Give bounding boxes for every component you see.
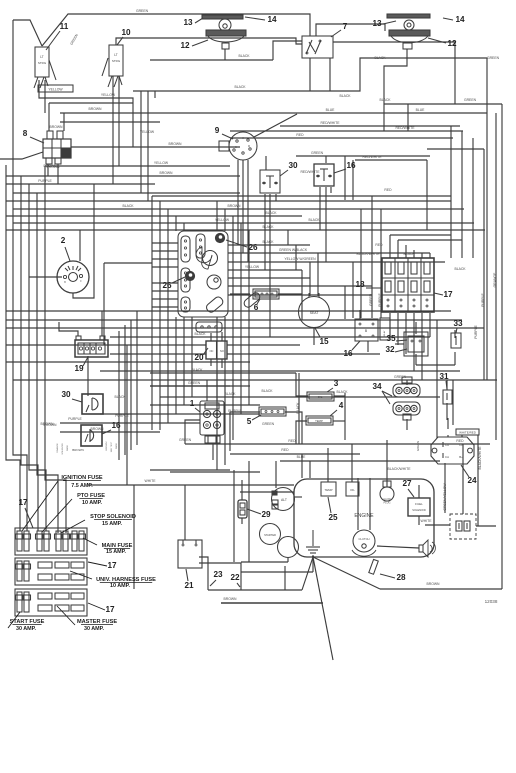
relay RL16b — [355, 319, 378, 341]
svg-text:M: M — [248, 144, 250, 148]
wire — [104, 262, 152, 264]
svg-text:BLACK: BLACK — [454, 267, 466, 271]
wire — [429, 253, 431, 258]
svg-text:STARTER: STARTER — [264, 533, 276, 537]
engine outline — [294, 479, 434, 557]
svg-text:PAGE: PAGE — [115, 443, 118, 449]
svg-text:RED/WHITE: RED/WHITE — [395, 126, 415, 130]
svg-text:LT: LT — [40, 55, 44, 59]
svg-text:SOLENOID: SOLENOID — [412, 508, 426, 512]
wire — [150, 385, 250, 387]
wire — [278, 294, 302, 320]
svg-text:18: 18 — [355, 280, 365, 289]
wire — [294, 496, 302, 498]
wire — [191, 230, 193, 231]
wire — [461, 435, 463, 437]
wire — [406, 419, 408, 430]
svg-text:3: 3 — [334, 379, 339, 388]
wire — [287, 230, 289, 245]
svg-text:CA: CA — [445, 443, 449, 447]
wire — [407, 58, 487, 380]
wire — [447, 418, 449, 429]
wire — [42, 14, 310, 46]
wire — [357, 478, 359, 530]
seat switch 15 — [299, 297, 330, 328]
wire — [101, 311, 103, 336]
wire — [227, 353, 380, 355]
label WHITE/RED (boxed) — [456, 429, 479, 435]
svg-text:GREEN W/BLACK: GREEN W/BLACK — [279, 248, 308, 252]
wire — [446, 380, 448, 390]
wire — [232, 216, 234, 440]
wire — [6, 215, 302, 217]
svg-text:GREEN: GREEN — [311, 151, 324, 155]
svg-text:BLACK: BLACK — [374, 56, 386, 60]
spark plug — [380, 487, 394, 501]
wire — [296, 421, 307, 444]
wire — [151, 196, 153, 430]
svg-text:4: 4 — [339, 401, 344, 410]
wire — [384, 103, 502, 105]
wire — [418, 485, 420, 498]
connector 34 pin — [402, 377, 412, 383]
svg-text:16: 16 — [343, 349, 353, 358]
connector 34 row2 — [393, 402, 420, 415]
module 19 — [75, 340, 108, 357]
wire — [302, 557, 313, 590]
wire — [389, 235, 391, 258]
wire — [248, 461, 250, 562]
wire — [140, 91, 142, 193]
wire — [6, 310, 451, 312]
wire — [13, 222, 474, 224]
wire — [501, 104, 503, 589]
svg-text:19: 19 — [74, 364, 84, 373]
relay RL16a — [314, 164, 334, 186]
wire — [13, 208, 464, 210]
svg-text:PURPLE: PURPLE — [378, 292, 382, 306]
wire — [327, 448, 329, 482]
starter — [260, 524, 281, 545]
svg-text:STRG: STRG — [112, 59, 121, 63]
svg-text:WHITE: WHITE — [421, 519, 433, 523]
svg-text:LT: LT — [114, 53, 118, 57]
svg-text:23: 23 — [213, 570, 223, 579]
svg-text:RED: RED — [296, 133, 304, 137]
svg-text:30 AMP.: 30 AMP. — [84, 626, 105, 632]
svg-text:BROWN/: BROWN/ — [106, 441, 108, 450]
lamp 3 — [307, 392, 334, 401]
wire — [6, 327, 484, 329]
fuse slot S3a — [38, 593, 52, 599]
svg-text:PURPLE: PURPLE — [68, 417, 82, 421]
wire — [237, 160, 239, 245]
connector C8 — [43, 139, 71, 158]
wire — [450, 126, 452, 258]
fuel solenoid — [408, 498, 430, 516]
wire — [309, 262, 311, 296]
svg-text:13: 13 — [183, 18, 193, 27]
wire — [60, 121, 160, 123]
svg-text:GREEN: GREEN — [136, 9, 149, 13]
wire — [247, 160, 249, 262]
wire — [248, 230, 250, 405]
svg-text:PLUG: PLUG — [383, 501, 390, 505]
svg-text:BLACK: BLACK — [238, 54, 250, 58]
switch module 21 — [178, 540, 202, 568]
wire — [390, 234, 451, 236]
wire — [477, 435, 479, 526]
svg-text:BROWN: BROWN — [72, 448, 84, 452]
wire — [483, 149, 485, 380]
svg-text:YELLOW W/GREEN: YELLOW W/GREEN — [284, 257, 316, 261]
svg-text:YELLOW: YELLOW — [215, 218, 230, 222]
svg-text:ENGINE: ENGINE — [354, 513, 374, 519]
svg-text:CA: CA — [459, 443, 463, 447]
svg-text:17: 17 — [105, 605, 115, 614]
wire — [421, 253, 423, 258]
ground symbol — [312, 530, 314, 546]
wire — [6, 165, 20, 531]
fuse slot S2e — [55, 574, 69, 580]
svg-text:BROWN: BROWN — [50, 125, 64, 129]
wire — [377, 546, 419, 548]
wire 20 pin c — [210, 359, 212, 366]
svg-text:RED: RED — [384, 188, 392, 192]
wire — [152, 306, 178, 308]
wire — [224, 209, 226, 231]
svg-text:SEE TEXT: SEE TEXT — [111, 441, 113, 452]
wire — [133, 485, 135, 589]
wire — [415, 354, 417, 365]
wire — [13, 20, 42, 46]
wire — [241, 571, 313, 573]
svg-text:IGNITION FUSE: IGNITION FUSE — [61, 475, 103, 481]
wire — [150, 469, 230, 471]
svg-text:RED/WHITE: RED/WHITE — [362, 155, 382, 159]
wire — [230, 130, 463, 132]
wire — [436, 320, 438, 438]
svg-text:8: 8 — [23, 129, 28, 138]
svg-text:RED: RED — [456, 439, 464, 443]
wire — [333, 420, 345, 422]
wire — [159, 201, 161, 430]
start/master fuse F6 — [17, 592, 22, 612]
wire — [6, 319, 462, 321]
wire — [386, 440, 388, 487]
wire — [301, 454, 303, 478]
wire — [295, 245, 297, 270]
wire — [6, 200, 451, 202]
pto fuse F2 — [37, 531, 42, 551]
svg-text:GREEN: GREEN — [262, 422, 275, 426]
fuse slot S2b — [55, 562, 69, 568]
relay RL30b — [82, 394, 103, 414]
wire — [183, 223, 185, 231]
wire — [406, 49, 408, 58]
svg-text:14: 14 — [455, 15, 465, 24]
svg-text:BLUE: BLUE — [416, 108, 426, 112]
wire — [242, 160, 244, 253]
wire — [152, 266, 178, 268]
svg-text:GREEN: GREEN — [464, 98, 477, 102]
wire — [110, 353, 206, 355]
wire — [269, 194, 271, 337]
wire — [152, 195, 451, 197]
wire — [355, 159, 427, 161]
wire — [406, 380, 408, 385]
wire — [88, 484, 294, 486]
svg-text:BLACK: BLACK — [224, 392, 236, 396]
wire — [301, 270, 303, 294]
oil sender — [346, 482, 359, 496]
svg-text:YELLOW: YELLOW — [245, 265, 260, 269]
wire — [462, 444, 464, 514]
fuse block section 3 — [15, 589, 87, 616]
relay RL16c — [81, 425, 102, 446]
svg-text:BLACK: BLACK — [336, 390, 348, 394]
svg-text:17: 17 — [443, 290, 453, 299]
svg-text:PTO FUSE: PTO FUSE — [77, 493, 105, 499]
svg-text:GREEN: GREEN — [69, 33, 79, 46]
svg-text:BLACK/WHITE: BLACK/WHITE — [478, 446, 482, 470]
wire — [152, 298, 178, 300]
wire — [29, 276, 62, 278]
wire — [150, 59, 273, 61]
wire — [230, 412, 260, 451]
connector 29 — [238, 500, 247, 518]
wire — [352, 262, 354, 318]
svg-text:STOP SOLENOID: STOP SOLENOID — [90, 514, 136, 520]
starter solenoid — [278, 537, 299, 558]
wire — [421, 313, 423, 380]
svg-text:BLACK: BLACK — [114, 395, 126, 399]
wire — [112, 98, 114, 184]
wire — [240, 491, 294, 493]
wire — [429, 313, 431, 337]
wire — [150, 385, 230, 387]
wire — [45, 166, 66, 533]
wire — [313, 328, 315, 345]
wire — [39, 80, 133, 147]
connector 5 — [259, 407, 286, 416]
svg-text:32: 32 — [385, 345, 395, 354]
wire — [124, 325, 126, 455]
svg-text:GREEN/YELLOW: GREEN/YELLOW — [443, 483, 447, 511]
fuse slot S3e — [55, 605, 69, 611]
svg-text:BLACK: BLACK — [296, 402, 300, 414]
svg-text:CLUTCH: CLUTCH — [359, 537, 370, 541]
wire — [397, 240, 399, 258]
svg-text:12038: 12038 — [485, 599, 498, 604]
svg-text:ALT: ALT — [281, 498, 287, 502]
svg-text:34: 34 — [372, 382, 382, 391]
wire 20 pin d — [221, 359, 223, 368]
svg-text:BROWN: BROWN — [41, 422, 55, 426]
svg-text:B: B — [64, 281, 66, 284]
svg-text:PURPLE: PURPLE — [481, 292, 485, 306]
grommet 26 (left) — [185, 271, 194, 280]
wire — [280, 460, 440, 462]
wire — [241, 518, 243, 524]
wire — [344, 286, 346, 319]
svg-text:RED/WHITE: RED/WHITE — [300, 170, 320, 174]
wire — [427, 148, 484, 150]
svg-text:7.5 AMP.: 7.5 AMP. — [71, 483, 93, 489]
fuse slot S3c — [71, 593, 84, 599]
svg-text:15 AMP.: 15 AMP. — [102, 521, 123, 527]
wire — [48, 103, 50, 131]
wire — [230, 137, 453, 139]
svg-text:RED: RED — [281, 448, 289, 452]
battery — [450, 514, 476, 539]
wire — [407, 104, 409, 131]
fuse block section 1 — [15, 528, 87, 555]
svg-text:B+: B+ — [459, 455, 463, 459]
svg-text:28: 28 — [396, 573, 406, 582]
svg-text:31: 31 — [439, 372, 449, 381]
wire — [360, 209, 362, 318]
wire — [191, 317, 193, 397]
wire — [452, 380, 454, 425]
svg-text:12: 12 — [180, 41, 190, 50]
wire — [130, 320, 132, 450]
wire — [329, 58, 331, 91]
svg-text:BROWN: BROWN — [89, 107, 103, 111]
wire — [273, 41, 302, 60]
svg-text:GREEN: GREEN — [188, 381, 201, 385]
wire — [287, 558, 289, 562]
wire — [63, 113, 65, 131]
wire — [380, 588, 502, 590]
wire — [230, 293, 250, 295]
wire — [183, 317, 185, 405]
svg-text:BLACK: BLACK — [261, 389, 273, 393]
wire — [103, 263, 105, 345]
svg-text:ORANGE: ORANGE — [56, 443, 59, 453]
wire — [152, 290, 178, 292]
fuse slot S3b — [55, 593, 69, 599]
univ harness fuse F5 — [17, 561, 22, 581]
connector 1 — [200, 401, 224, 435]
wire — [296, 155, 430, 157]
wire — [384, 58, 407, 131]
wire — [418, 516, 420, 525]
svg-text:PAGE: PAGE — [66, 445, 69, 451]
wire — [0, 152, 43, 159]
wire — [126, 345, 128, 485]
wire — [472, 138, 474, 258]
wire — [461, 131, 463, 258]
wire — [79, 230, 81, 261]
wire — [367, 341, 369, 352]
wire — [334, 395, 345, 397]
relay 32/35 — [404, 332, 428, 356]
wire — [312, 558, 314, 572]
wire — [369, 478, 371, 530]
svg-text:WHITE: WHITE — [145, 479, 157, 483]
svg-text:TEMP: TEMP — [324, 488, 332, 492]
fuse block section 2 — [15, 558, 87, 585]
svg-text:BROWN: BROWN — [44, 164, 58, 168]
wire — [199, 557, 208, 590]
svg-text:GREEN: GREEN — [369, 293, 373, 306]
wire — [495, 113, 497, 440]
svg-text:WHITE/RED: WHITE/RED — [459, 431, 477, 435]
svg-text:29: 29 — [261, 510, 271, 519]
wire 20 pin a — [210, 333, 212, 341]
svg-text:10: 10 — [121, 28, 131, 37]
lamp 4 — [306, 416, 333, 425]
wire — [175, 317, 177, 414]
wire — [359, 310, 361, 319]
wire — [206, 380, 208, 401]
wire — [296, 373, 308, 396]
svg-text:ORANGE: ORANGE — [493, 272, 497, 287]
wire — [454, 352, 456, 365]
svg-text:B: B — [365, 329, 368, 333]
svg-text:MASTER FUSE: MASTER FUSE — [77, 619, 117, 625]
wire — [313, 557, 333, 660]
wire — [6, 175, 240, 177]
svg-text:START FUSE: START FUSE — [10, 619, 45, 625]
wire (brown heavy) — [221, 602, 323, 604]
wire — [6, 183, 155, 185]
wire — [275, 194, 277, 201]
svg-text:26: 26 — [248, 243, 258, 252]
wire — [152, 250, 178, 252]
wire — [330, 187, 332, 193]
wire — [199, 563, 241, 590]
svg-text:17: 17 — [107, 561, 117, 570]
wire — [380, 209, 382, 318]
wire — [224, 49, 226, 60]
svg-text:PURPLE: PURPLE — [38, 179, 52, 183]
wire — [325, 156, 327, 163]
svg-text:30: 30 — [288, 161, 298, 170]
fuse slot S3f — [71, 605, 84, 611]
svg-text:SOLENOID: SOLENOID — [62, 443, 64, 455]
svg-text:2: 2 — [61, 236, 66, 245]
svg-text:FUEL: FUEL — [415, 502, 423, 506]
wire — [49, 102, 133, 104]
wire — [397, 313, 399, 345]
wire — [47, 164, 49, 176]
relay RL7 — [302, 36, 333, 58]
harness cluster — [178, 231, 228, 317]
headlamp bar 13 (right) — [387, 14, 430, 18]
wire — [325, 187, 327, 262]
svg-text:10 AMP.: 10 AMP. — [110, 583, 131, 589]
main fuse F4 — [72, 531, 77, 551]
svg-text:YELLOW: YELLOW — [48, 88, 63, 92]
wire — [59, 322, 78, 336]
switch 20 (NC/NO) — [206, 341, 227, 359]
wire — [110, 336, 430, 338]
wire — [118, 331, 120, 460]
wire — [152, 258, 178, 260]
alternator — [272, 488, 295, 511]
wire — [454, 330, 456, 338]
svg-text:GLOW: GLOW — [383, 498, 391, 501]
wire — [389, 313, 391, 337]
wire — [333, 42, 455, 104]
wire — [264, 194, 266, 270]
svg-text:BLACK: BLACK — [191, 368, 203, 372]
wire — [112, 76, 114, 98]
wire — [476, 525, 496, 527]
wire — [228, 269, 302, 271]
